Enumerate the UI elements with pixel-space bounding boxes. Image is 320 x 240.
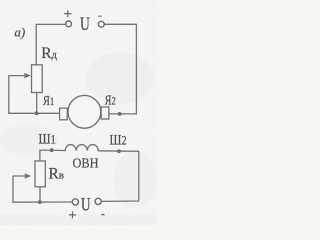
svg-text:U: U [81, 196, 91, 216]
junction node below Rd (Ya1 node) [35, 111, 39, 115]
terminal circle bottom plus [72, 199, 78, 205]
junction node below Rv [38, 200, 42, 204]
wire top-left from plus terminal to corner and down to Rd [36, 24, 66, 64]
armature circle M [68, 95, 101, 128]
resistor Rd wiper arrowhead [24, 73, 31, 79]
svg-text:Я1: Я1 [43, 94, 54, 109]
resistor Rd rheostat body [32, 65, 43, 93]
svg-text:U: U [80, 15, 90, 35]
resistor Rv wiper arrowhead [25, 173, 31, 179]
plus sign bottom [69, 211, 76, 218]
wire Sh1 corner down to Rv [39, 150, 41, 161]
plus sign top [64, 10, 71, 17]
minus sign bottom [101, 214, 104, 216]
junction node Sh1 terminal [50, 148, 54, 152]
svg-text:Ш2: Ш2 [110, 132, 127, 148]
wire right side of upper circuit [104, 24, 136, 114]
svg-text:Я2: Я2 [105, 93, 116, 108]
wire Rv bottom to junction [39, 187, 41, 202]
resistor Rv rheostat body [35, 161, 45, 187]
field winding coil OVN [65, 145, 98, 151]
minus sign top [98, 15, 101, 17]
wire bottom of lower circuit to left terminal [13, 201, 72, 203]
paper background [0, 0, 157, 225]
wire bottom of upper circuit to left brush [9, 112, 60, 114]
svg-text:Ш1: Ш1 [39, 132, 56, 148]
junction node Ya2 terminal [118, 112, 122, 116]
terminal circle bottom minus [95, 198, 101, 204]
brush right (Ya2) [101, 107, 109, 119]
wire coil to Sh2 corner and down right side [98, 151, 139, 202]
terminal circle top minus [98, 21, 104, 27]
svg-text:ОВН: ОВН [73, 156, 99, 171]
wire Rv wiper arm and left loop [13, 176, 26, 202]
terminal circle top plus [66, 21, 72, 27]
wire Rd bottom to junction [36, 93, 38, 114]
faint scan shading patches [0, 52, 157, 225]
wire Rd wiper arm and left loop [9, 76, 26, 114]
brush left (Ya1) [60, 108, 68, 120]
svg-text:а): а) [14, 24, 25, 39]
junction node Sh2 terminal [117, 149, 121, 153]
wire Sh1 horizontal to coil [40, 149, 65, 151]
wire right brush to right corner [109, 113, 136, 115]
